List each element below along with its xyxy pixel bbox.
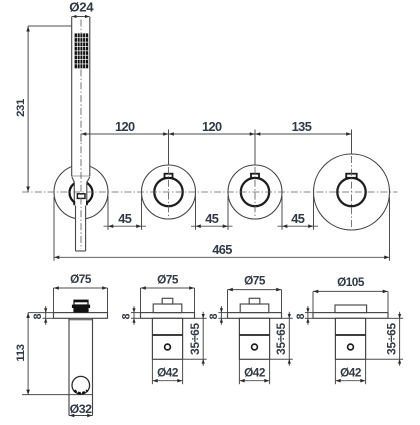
- svg-text:8: 8: [208, 313, 220, 319]
- svg-text:465: 465: [212, 242, 232, 257]
- dimension 45 between x=282 and x=314: [278, 196, 319, 230]
- cartridge cap step2 at x=167.5: [162, 298, 173, 304]
- dimension Ø42 at x=167.5: [152, 359, 182, 384]
- svg-text:45: 45: [118, 211, 132, 226]
- valve handle circle Ø42 at x=255.0: [241, 178, 269, 206]
- valve body Ø42 side view at x=167.5: [152, 318, 182, 359]
- dimension Ø24 (hand shower head diameter): [69, 0, 94, 18]
- dimension 8 plate thickness near x=228: [208, 306, 228, 325]
- dimension Ø42 at x=350.5: [335, 359, 365, 384]
- svg-text:231: 231: [15, 98, 27, 117]
- wall plate side view at x=254.5: [228, 313, 282, 319]
- valve body Ø42 side view at x=254.5: [239, 318, 269, 359]
- thermostat cap at x=350.5: [335, 305, 367, 313]
- hand shower handle (through holder): [72, 176, 90, 251]
- svg-text:135: 135: [292, 119, 312, 134]
- valve escutcheon circle at x=168.5: [142, 165, 196, 219]
- svg-text:Ø75: Ø75: [157, 272, 179, 286]
- svg-text:35÷65: 35÷65: [274, 323, 288, 355]
- valve handle notch at x=351.5: [346, 174, 357, 178]
- dimension 45 between x=196 and x=228: [191, 196, 233, 230]
- cartridge cap step2 at x=254.5: [249, 298, 260, 304]
- svg-text:Ø75: Ø75: [244, 274, 266, 288]
- svg-text:8: 8: [295, 313, 307, 319]
- svg-text:45: 45: [291, 211, 305, 226]
- hand shower grip: [76, 206, 86, 252]
- thermostat centerline: [351, 156, 353, 229]
- valve centerline v2: [254, 167, 256, 219]
- dimension Ø42 at x=254.5: [239, 359, 269, 384]
- svg-text:Ø105: Ø105: [337, 275, 365, 289]
- dimension 465 (overall width): [54, 197, 390, 261]
- valve escutcheon circle at x=351.5: [314, 154, 390, 230]
- holder clamp button: [77, 194, 85, 199]
- svg-text:113: 113: [15, 344, 27, 361]
- outlet spray face: [74, 390, 87, 393]
- hand shower vertical centerline: [80, 70, 82, 250]
- wall plate side view at x=80.5: [54, 313, 108, 319]
- svg-text:35÷65: 35÷65: [188, 323, 202, 355]
- valve handle circle Ø42 at x=168.5: [154, 178, 182, 206]
- outlet tube Ø32 side view: [69, 318, 93, 415]
- dimension 35÷65 wall depth near x=203.2: [183, 312, 207, 366]
- body screw at x=350.5: [348, 344, 354, 350]
- hand shower head body: [72, 17, 90, 177]
- dimension &#216;75 at x=254.5: [228, 274, 282, 313]
- svg-text:45: 45: [205, 211, 219, 226]
- dimension 8 plate thickness near x=140: [121, 306, 141, 325]
- body divider line at x=350.5: [335, 334, 365, 336]
- svg-text:120: 120: [202, 119, 222, 134]
- dimension &#216;75 at x=167.5: [141, 272, 195, 312]
- cartridge cap step1 at x=167.5: [153, 304, 182, 313]
- body divider line at x=254.5: [239, 334, 269, 336]
- dimension chain 120 / 120 / 135: [81, 119, 352, 165]
- body screw at x=254.5: [252, 344, 258, 350]
- dimension &#216;105 at x=350.5: [313, 275, 388, 313]
- holder cup edges: [74, 201, 87, 205]
- dimension 8 for holder plate: [28, 306, 53, 325]
- dimension 113 (outlet drop): [15, 313, 93, 395]
- outlet ball: [72, 376, 90, 394]
- dimension 231 (shower height): [15, 26, 72, 192]
- valve handle notch at x=168.5: [165, 174, 173, 178]
- holder knob circle: [70, 181, 93, 204]
- wall plate side view at x=350.5: [313, 313, 388, 319]
- body screw at x=167.5: [165, 344, 171, 350]
- svg-text:Ø42: Ø42: [244, 366, 266, 380]
- dimension 35÷65 wall depth near x=289.3: [270, 312, 293, 366]
- valve escutcheon circle at x=255.0: [228, 165, 282, 219]
- svg-text:Ø32: Ø32: [70, 402, 93, 416]
- svg-text:8: 8: [121, 313, 133, 319]
- valve handle circle Ø42 at x=351.5: [337, 178, 365, 206]
- valve handle notch at x=255.0: [251, 174, 259, 178]
- dimension 35÷65 wall depth near x=399.6: [366, 312, 404, 366]
- dimension &#216;75 at x=80.5: [54, 272, 108, 312]
- hand shower spray face grid: [75, 33, 89, 68]
- svg-text:35÷65: 35÷65: [385, 323, 399, 355]
- dimension 45 between x=108 and x=142: [104, 196, 147, 230]
- svg-text:8: 8: [32, 313, 44, 319]
- holder escutcheon circle Ø75: [54, 165, 108, 219]
- holder bracket side view (black): [72, 300, 90, 313]
- svg-text:Ø24: Ø24: [69, 0, 94, 15]
- dimension Ø32: [69, 402, 92, 418]
- main horizontal centerline: [22, 191, 398, 193]
- svg-text:120: 120: [115, 119, 135, 134]
- wall plate side view at x=167.5: [141, 313, 195, 319]
- dimension 8 plate thickness near x=313: [295, 306, 313, 325]
- svg-text:Ø42: Ø42: [157, 366, 179, 380]
- svg-text:Ø42: Ø42: [340, 366, 362, 380]
- svg-text:Ø75: Ø75: [70, 272, 92, 286]
- valve centerline v1: [168, 167, 170, 219]
- body divider line at x=167.5: [152, 334, 182, 336]
- cartridge cap step1 at x=254.5: [240, 304, 269, 313]
- hand shower vertical centerline (above spray face): [80, 20, 82, 34]
- valve body Ø42 side view at x=350.5: [335, 318, 365, 359]
